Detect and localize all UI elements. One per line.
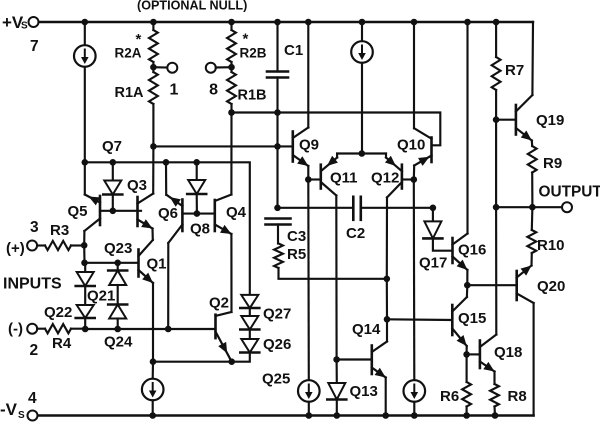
label Q25 <box>262 371 290 388</box>
resistor R1B <box>227 67 236 112</box>
svg-text:Q27: Q27 <box>263 306 291 323</box>
wire Q18 base <box>467 353 480 355</box>
node Q14 collector junction <box>384 316 391 323</box>
svg-text:Q22: Q22 <box>44 304 72 321</box>
label Q23 <box>104 240 132 257</box>
label Q17 <box>419 255 447 272</box>
label +Vs <box>2 13 28 32</box>
node bias junction x112.8 <box>110 159 117 166</box>
label Q18 <box>494 344 522 361</box>
svg-text:(-): (-) <box>8 321 23 338</box>
wire R1A node to Q9 base <box>153 145 292 147</box>
node bias junction x166 <box>163 159 170 166</box>
current source I5 <box>404 380 426 415</box>
node Q19 base junction <box>493 116 500 123</box>
terminal (-) input pin 2 <box>27 324 37 334</box>
label OUTPUT <box>539 184 600 201</box>
wire Q12c column to Q14 <box>386 279 388 320</box>
capacitor C2 <box>353 197 361 220</box>
node Q10 emitter / Q12 base junction <box>411 176 418 183</box>
svg-text:Q1: Q1 <box>147 256 167 273</box>
label R9 <box>543 155 562 172</box>
label Q20 <box>537 278 565 295</box>
wire to pin 1 <box>153 66 167 68</box>
node Q2 emitter junction <box>228 358 235 365</box>
node Q15emitter/Q18base/R6 junction <box>463 351 470 358</box>
svg-text:Q24: Q24 <box>104 334 133 351</box>
node top-rail junction x362 <box>359 19 366 26</box>
transistor Q5 <box>84 162 100 245</box>
diode Q24 protection (right bottom) <box>108 305 127 330</box>
node rail junction x308.8 <box>306 412 313 419</box>
wire bias rail y162 <box>85 162 250 295</box>
label C3 <box>287 228 306 245</box>
svg-text:7: 7 <box>30 38 39 55</box>
node top-rail junction x231.5 <box>228 19 235 26</box>
terminal OUTPUT <box>562 202 572 212</box>
svg-text:C2: C2 <box>346 225 365 242</box>
resistor R2B <box>227 22 236 67</box>
node rail junction x336.8 <box>334 412 341 419</box>
node Q9-base-wire junction x277.5 <box>274 143 281 150</box>
svg-text:S: S <box>21 21 28 32</box>
label Q14 <box>352 321 381 338</box>
label pin 3 <box>30 219 39 236</box>
node Q14 base junction <box>333 356 340 363</box>
capacitor C3 <box>266 219 291 244</box>
svg-text:R2B: R2B <box>240 46 267 61</box>
svg-text:S: S <box>18 410 25 421</box>
diode Q8 (diode-connected) <box>187 162 206 213</box>
label INPUTS <box>3 276 62 293</box>
transistor Q6 <box>166 162 182 329</box>
diode Q26 stack bottom <box>232 330 260 362</box>
node rail junction x414.3 <box>411 412 418 419</box>
label Q19 <box>536 112 564 129</box>
svg-text:Q15: Q15 <box>458 310 486 327</box>
label C1 <box>284 42 303 59</box>
wire Q11/Q12 emitter join <box>337 152 386 154</box>
transistor Q23 <box>138 146 154 240</box>
svg-text:Q10: Q10 <box>397 137 425 154</box>
terminal pin 1 <box>167 63 177 73</box>
resistor R9 <box>528 146 537 207</box>
wire R7 node down to output <box>495 120 497 208</box>
node top-rail junction x153.8 <box>150 19 157 26</box>
label Q11 <box>330 170 358 187</box>
svg-text:Q18: Q18 <box>494 344 522 361</box>
transistor Q12 <box>385 154 402 279</box>
node top-rail junction x308.3 <box>305 19 312 26</box>
wire Q14 base <box>337 358 372 360</box>
node Q6-collector junction <box>165 326 172 333</box>
wire Q6/Q8/Q4 base wire <box>182 213 214 215</box>
svg-text:R10: R10 <box>537 237 565 254</box>
label pin 4 <box>28 390 37 407</box>
node bias junction x196.7 <box>193 159 200 166</box>
transistor Q10 <box>414 22 432 180</box>
label Q5 <box>68 203 88 220</box>
svg-text:Q2: Q2 <box>209 295 229 312</box>
diode Q27 stack top <box>240 295 259 308</box>
svg-text:1: 1 <box>170 82 179 99</box>
svg-text:Q9: Q9 <box>299 137 319 154</box>
label pin 7 <box>30 38 39 55</box>
svg-text:4: 4 <box>28 390 37 407</box>
svg-text:R8: R8 <box>508 388 527 405</box>
transistor Q2 <box>216 312 232 362</box>
wire C1 down to Q9 base wire <box>276 113 278 147</box>
svg-text:Q12: Q12 <box>371 170 399 187</box>
svg-text:Q17: Q17 <box>419 255 447 272</box>
transistor Q14 <box>372 319 387 415</box>
wire C2 right to Q17 <box>361 207 433 209</box>
label Q10 <box>397 137 425 154</box>
label Q2 <box>209 295 229 312</box>
svg-text:*: * <box>136 31 142 48</box>
wire down to C3 <box>276 146 278 207</box>
node Q1 base junction <box>81 260 88 267</box>
node bias junction x84.8 <box>82 159 89 166</box>
current source I4 (Q25) <box>298 380 320 415</box>
node C3 top junction <box>274 205 281 212</box>
resistor R3 <box>37 241 84 250</box>
wire Q11 base <box>308 178 321 180</box>
svg-text:2: 2 <box>30 342 39 359</box>
wire null network to Q10 base <box>232 113 441 146</box>
label R1A <box>115 85 145 101</box>
label R1B <box>238 88 267 104</box>
node top-rail junction x496.1 <box>493 19 500 26</box>
wire Q15 base <box>387 318 452 321</box>
wire C2 left <box>278 207 354 209</box>
svg-text:Q23: Q23 <box>104 240 132 257</box>
label Q7 <box>102 138 122 155</box>
svg-text:Q16: Q16 <box>458 242 486 259</box>
label Q21 <box>87 288 115 305</box>
label Q1 <box>147 256 167 273</box>
resistor R8 <box>490 384 499 416</box>
svg-text:Q19: Q19 <box>536 112 564 129</box>
svg-text:Q6: Q6 <box>158 205 178 222</box>
svg-text:R3: R3 <box>50 222 69 239</box>
terminal -Vs pin 4 <box>28 411 38 421</box>
svg-text:R5: R5 <box>287 246 306 263</box>
label R2B <box>240 31 267 61</box>
terminal +Vs pin 7 <box>29 17 39 27</box>
resistor R2A <box>149 22 158 67</box>
transistor Q4 <box>215 113 232 313</box>
resistor R7 <box>492 22 501 120</box>
wire Q19 base <box>496 119 516 121</box>
svg-text:Q14: Q14 <box>352 321 381 338</box>
current source I1 (top left) <box>74 22 96 162</box>
label Q3 <box>127 177 147 194</box>
current source I2 (second stage) <box>351 22 373 154</box>
label R7 <box>505 62 524 79</box>
label R5 <box>287 246 306 263</box>
node rail junction x385.7 <box>382 412 389 419</box>
svg-text:Q7: Q7 <box>102 138 122 155</box>
resistor R4 <box>37 324 85 333</box>
label (-) <box>8 321 23 338</box>
svg-text:Q21: Q21 <box>87 288 115 305</box>
label R2A <box>115 31 142 61</box>
wire Q18 collector column <box>495 207 497 334</box>
label Q15 <box>458 310 486 327</box>
label Q9 <box>299 137 319 154</box>
svg-text:Q11: Q11 <box>330 170 358 187</box>
label pin 2 <box>30 342 39 359</box>
svg-text:R6: R6 <box>440 388 459 405</box>
wire Q2 base wire <box>85 328 215 330</box>
svg-text:Q25: Q25 <box>262 371 290 388</box>
svg-text:Q3: Q3 <box>127 177 147 194</box>
label R4 <box>52 335 72 352</box>
label Q27 <box>263 306 291 323</box>
diode Q21a protection (left top) <box>76 263 95 305</box>
label R6 <box>440 388 459 405</box>
wire driver node to Q20 base <box>467 284 516 286</box>
label Q22 <box>44 304 72 321</box>
label Q4 <box>226 204 247 221</box>
node Q3 cathode junction <box>110 208 117 215</box>
wire Q1 base wire <box>85 262 139 264</box>
label -Vs <box>0 400 25 421</box>
resistor R6 <box>462 354 471 415</box>
terminal pin 8 <box>206 63 216 73</box>
svg-text:8: 8 <box>209 82 218 99</box>
label R8 <box>508 388 527 405</box>
node top-rail junction x414 <box>411 19 418 26</box>
wire emitters join y361.7 <box>153 361 232 363</box>
svg-text:R7: R7 <box>505 62 524 79</box>
node emitter-join junction <box>359 150 366 157</box>
svg-text:R4: R4 <box>52 335 72 352</box>
svg-text:INPUTS: INPUTS <box>3 276 62 293</box>
wire Q9e column down to I4 <box>307 180 310 381</box>
node R1A bottom junction <box>150 143 157 150</box>
node rail junction x466.6 <box>463 412 470 419</box>
svg-text:*: * <box>243 31 249 48</box>
node prot-stack-right bottom junction <box>114 326 121 333</box>
transistor Q11 <box>321 154 338 196</box>
svg-text:Q4: Q4 <box>226 204 247 221</box>
label (+) <box>6 240 25 257</box>
wire +Vs top supply rail <box>39 21 534 23</box>
label Q24 <box>104 334 133 351</box>
svg-text:Q13: Q13 <box>350 383 378 400</box>
label Q12 <box>371 170 399 187</box>
svg-text:R9: R9 <box>543 155 562 172</box>
label Q26 <box>263 336 291 353</box>
wire Q12 base <box>402 178 414 180</box>
node null pin8 junction <box>228 64 235 71</box>
node top-rail junction x277.5 <box>274 19 281 26</box>
node prot-stack-right top junction <box>114 260 121 267</box>
transistor Q20 <box>517 266 534 416</box>
wire +input down <box>83 245 85 262</box>
wire Q5/Q3/Q23 base wire <box>100 210 141 212</box>
svg-text:Q26: Q26 <box>263 336 291 353</box>
svg-text:C3: C3 <box>287 228 306 245</box>
resistor R5 <box>274 244 387 279</box>
wire -Vs bottom supply rail <box>38 414 534 416</box>
diode Q21b protection (right top) <box>108 263 127 305</box>
svg-text:(+): (+) <box>6 240 25 257</box>
resistor R10 <box>527 207 536 265</box>
diode Q13 (diode-connected) <box>327 360 346 416</box>
wire Q12base column down to I5 <box>413 180 416 381</box>
wire Q11 collector column <box>335 196 337 360</box>
node +input junction <box>81 242 88 249</box>
svg-text:3: 3 <box>30 219 39 236</box>
current source I3 (tail) <box>142 362 164 416</box>
label Q16 <box>458 242 486 259</box>
node rail junction x152.7 <box>149 412 156 419</box>
svg-text:C1: C1 <box>284 42 303 59</box>
label Q13 <box>350 383 378 400</box>
svg-text:R1A: R1A <box>115 85 145 101</box>
node rail junction x495 <box>492 412 499 419</box>
label (OPTIONAL NULL) <box>137 0 247 13</box>
label pin 1 <box>170 82 179 99</box>
terminal (+) input pin 3 <box>27 241 37 251</box>
svg-text:(OPTIONAL NULL): (OPTIONAL NULL) <box>137 0 247 13</box>
node output junction x496.1 <box>493 204 500 211</box>
node Q12-collector/R5 junction <box>384 276 391 283</box>
svg-text:Q8: Q8 <box>190 221 210 238</box>
node null pin1 junction <box>150 64 157 71</box>
label Q8 <box>190 221 210 238</box>
transistor Q18 <box>480 335 496 385</box>
node -input junction <box>82 326 89 333</box>
node Q1 emitter junction <box>150 358 157 365</box>
diode stack middle <box>240 308 259 330</box>
transistor Q1 <box>139 240 154 362</box>
node C1-null junction <box>274 109 281 116</box>
transistor Q15 <box>452 285 467 354</box>
svg-text:R1B: R1B <box>238 88 267 104</box>
node Q9 emitter / Q11 base junction <box>305 176 312 183</box>
label R10 <box>537 237 565 254</box>
node top-rail junction x84 <box>82 19 89 26</box>
label pin 8 <box>209 82 218 99</box>
svg-text:Q5: Q5 <box>68 203 88 220</box>
diode Q22 protection (left bottom) <box>76 305 95 329</box>
svg-text:-V: -V <box>0 400 18 419</box>
diode Q17 (diode-connected) <box>423 208 452 251</box>
transistor Q16 <box>453 22 468 285</box>
svg-text:Q20: Q20 <box>537 278 565 295</box>
node Q8 cathode junction <box>194 210 201 217</box>
label Q6 <box>158 205 178 222</box>
label R3 <box>50 222 69 239</box>
node null-wire junction x231.5 <box>228 109 235 116</box>
node driver node junction <box>464 282 471 289</box>
node output junction x532.4 <box>529 204 536 211</box>
transistor Q9 <box>293 22 309 180</box>
node top-rail junction x467.5 <box>464 19 471 26</box>
svg-text:OUTPUT: OUTPUT <box>539 184 600 201</box>
wire output <box>496 206 562 208</box>
diode Q3 (diode-connected) <box>103 162 122 211</box>
label C2 <box>346 225 365 242</box>
transistor Q19 <box>516 22 533 146</box>
node Q17 anode junction <box>430 205 437 212</box>
resistor R1A <box>149 67 158 146</box>
capacitor C1 <box>267 22 288 113</box>
wire pin8 to R-node <box>216 66 232 68</box>
